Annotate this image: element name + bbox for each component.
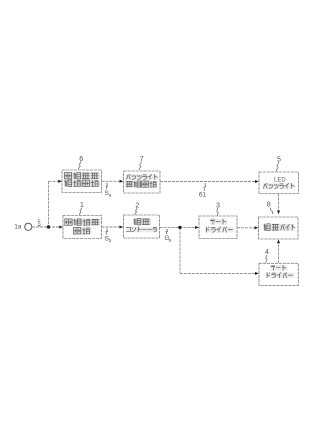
svg-text:6: 6: [79, 156, 83, 163]
svg-text:1a: 1a: [14, 224, 22, 231]
svg-text:5: 5: [38, 220, 41, 226]
svg-text:61: 61: [199, 192, 207, 199]
svg-text:3: 3: [216, 202, 220, 209]
svg-text:2: 2: [135, 203, 139, 210]
svg-text:8: 8: [267, 202, 271, 209]
svg-text:7: 7: [140, 156, 144, 163]
svg-text:LED: LED: [274, 178, 286, 184]
svg-text:1: 1: [80, 202, 84, 209]
svg-text:5: 5: [277, 157, 281, 164]
